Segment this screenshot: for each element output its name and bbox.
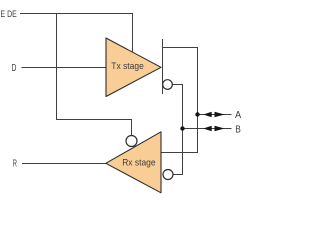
svg-text:A: A: [235, 110, 242, 121]
svg-text:E DE: E DE: [1, 9, 17, 20]
svg-text:R: R: [13, 159, 17, 170]
svg-text:B: B: [235, 125, 241, 136]
svg-text:Rx stage: Rx stage: [122, 157, 155, 168]
svg-text:Tx stage: Tx stage: [111, 61, 144, 72]
svg-text:D: D: [12, 63, 17, 74]
